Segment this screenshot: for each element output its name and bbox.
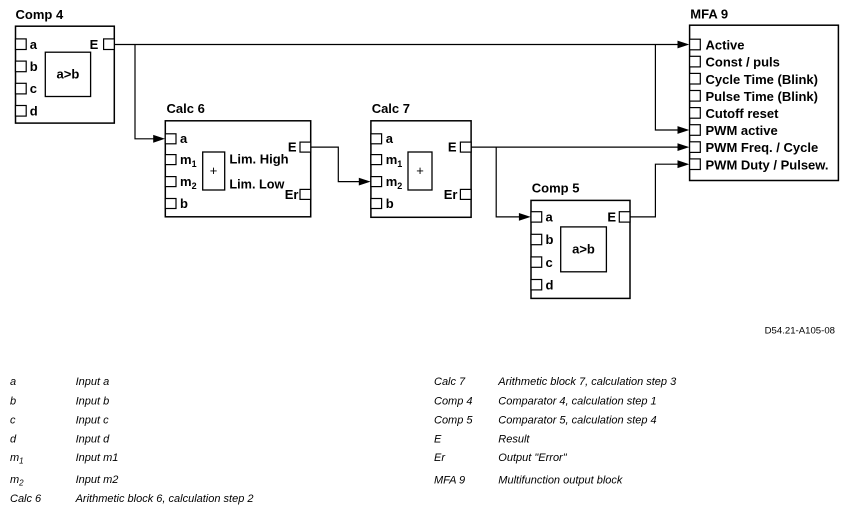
svg-text:a>b: a>b — [57, 66, 80, 81]
pin a (Comp 5) — [531, 210, 554, 225]
svg-text:Lim. Low: Lim. Low — [229, 176, 285, 191]
pin a (Calc 6) — [165, 131, 188, 146]
svg-text:a: a — [30, 37, 38, 52]
svg-text:E: E — [288, 139, 297, 154]
svg-text:Arithmetic block 7, calculatio: Arithmetic block 7, calculation step 3 — [497, 376, 677, 388]
pin Er (Calc 7) — [444, 187, 471, 202]
svg-text:MFA 9: MFA 9 — [690, 7, 728, 22]
block Calc 7 outline — [371, 121, 471, 218]
pin Cycle Time (Blink) (MFA 9) — [690, 72, 818, 87]
drawing number D54.21-A105-08 — [765, 326, 835, 337]
svg-text:Er: Er — [285, 187, 299, 202]
svg-text:d: d — [30, 103, 38, 118]
svg-text:b: b — [30, 59, 38, 74]
svg-text:Const / puls: Const / puls — [706, 55, 780, 70]
pin b (Comp 5) — [531, 232, 554, 247]
pin m2 (Calc 7) — [371, 174, 402, 191]
svg-text:Cycle Time (Blink): Cycle Time (Blink) — [706, 72, 818, 87]
svg-text:a: a — [10, 376, 16, 388]
svg-text:a: a — [546, 210, 554, 225]
svg-text:Calc 6: Calc 6 — [10, 493, 42, 505]
block MFA 9 outline — [690, 25, 839, 180]
arrowhead into MFA 9 PWM Duty / Pulsew. — [678, 160, 690, 168]
svg-text:d: d — [546, 277, 554, 292]
pin c (Comp 4) — [16, 81, 38, 96]
legend row c — [10, 414, 109, 426]
svg-text:a: a — [180, 131, 188, 146]
legend row b — [10, 396, 109, 408]
pin PWM Freq. / Cycle (MFA 9) — [690, 140, 819, 155]
legend row m2 — [10, 474, 118, 488]
svg-text:Input a: Input a — [76, 376, 110, 388]
svg-text:Input b: Input b — [76, 396, 110, 408]
svg-text:c: c — [30, 81, 37, 96]
pin E (Calc 6) — [288, 139, 311, 154]
svg-text:Er: Er — [444, 187, 458, 202]
svg-text:Comp 5: Comp 5 — [434, 414, 473, 426]
pin E (Comp 4) — [90, 37, 115, 52]
svg-text:Arithmetic block 6, calculatio: Arithmetic block 6, calculation step 2 — [75, 493, 254, 505]
svg-text:Result: Result — [498, 434, 530, 446]
svg-text:Comp 4: Comp 4 — [434, 396, 473, 408]
pin PWM active (MFA 9) — [690, 123, 778, 138]
legend row Calc 6 — [10, 493, 254, 505]
legend row E — [434, 434, 530, 446]
function box a>b (Comp 5) — [561, 227, 607, 272]
pin m1 (Calc 7) — [371, 152, 402, 169]
svg-text:b: b — [546, 232, 554, 247]
legend row m1 — [10, 452, 118, 466]
pin b (Comp 4) — [16, 59, 38, 74]
arrowhead into MFA 9 PWM active — [678, 126, 690, 134]
function box + (Calc 7) — [408, 152, 432, 190]
arrowhead into Calc 6 a — [153, 135, 165, 143]
label Comp 4 — [16, 7, 64, 22]
svg-text:Comparator 5, calculation step: Comparator 5, calculation step 4 — [498, 414, 656, 426]
pin b (Calc 7) — [371, 196, 394, 211]
svg-text:E: E — [90, 37, 99, 52]
block Calc 6 outline — [165, 121, 310, 217]
svg-text:a>b: a>b — [572, 242, 595, 257]
block Comp 5 outline — [531, 200, 630, 298]
arrowhead into MFA 9 Active — [678, 41, 690, 49]
svg-text:b: b — [180, 196, 188, 211]
arrowhead into Comp 5 a — [519, 213, 531, 221]
svg-text:D54.21-A105-08: D54.21-A105-08 — [765, 326, 835, 337]
pin a (Comp 4) — [16, 37, 38, 52]
pin Cutoff reset (MFA 9) — [690, 106, 780, 121]
svg-text:E: E — [607, 210, 616, 225]
svg-text:d: d — [10, 434, 17, 446]
value label Lim. High (Calc 6) — [229, 152, 288, 167]
legend row a — [10, 376, 109, 388]
legend row Comp 5 — [434, 414, 657, 426]
wire branch to Calc 6 a — [135, 45, 155, 139]
svg-text:Calc 7: Calc 7 — [372, 101, 410, 116]
legend row Comp 4 — [434, 396, 657, 408]
wire Comp 4 E to MFA 9 Active — [114, 44, 678, 46]
svg-text:b: b — [10, 396, 16, 408]
pin c (Comp 5) — [531, 255, 553, 270]
svg-text:Er: Er — [434, 452, 446, 464]
svg-text:Comp 4: Comp 4 — [16, 7, 64, 22]
pin d (Comp 5) — [531, 277, 554, 292]
label Calc 7 — [372, 101, 410, 116]
label Comp 5 — [532, 180, 580, 195]
svg-text:c: c — [546, 255, 553, 270]
label Calc 6 — [167, 101, 205, 116]
svg-text:Input c: Input c — [76, 414, 110, 426]
block Comp 4 outline — [16, 26, 115, 123]
pin E (Comp 5) — [607, 210, 630, 225]
svg-text:a: a — [386, 131, 394, 146]
pin Pulse Time (Blink) (MFA 9) — [690, 89, 818, 104]
svg-text:Multifunction output block: Multifunction output block — [498, 475, 623, 487]
pin b (Calc 6) — [165, 196, 188, 211]
pin Er (Calc 6) — [285, 187, 311, 202]
svg-text:+: + — [210, 163, 218, 178]
legend row Er — [434, 452, 568, 464]
svg-text:c: c — [10, 414, 16, 426]
wire Comp 5 E to MFA 9 PWM Duty / Pulsew. — [630, 164, 679, 217]
svg-text:Active: Active — [706, 38, 745, 53]
svg-text:Pulse Time (Blink): Pulse Time (Blink) — [706, 89, 818, 104]
pin m1 (Calc 6) — [165, 152, 196, 169]
svg-text:Comparator 4, calculation step: Comparator 4, calculation step 1 — [498, 396, 656, 408]
arrowhead into Calc 7 m2 — [359, 178, 371, 186]
legend row Calc 7 — [434, 376, 677, 388]
pin PWM Duty / Pulsew. (MFA 9) — [690, 157, 829, 172]
pin Const / puls (MFA 9) — [690, 55, 780, 70]
svg-text:Input d: Input d — [76, 434, 111, 446]
wire branch to Comp 5 a — [496, 147, 520, 217]
pin m2 (Calc 6) — [165, 174, 196, 191]
svg-text:PWM Freq. / Cycle: PWM Freq. / Cycle — [706, 140, 819, 155]
svg-text:Comp 5: Comp 5 — [532, 180, 580, 195]
svg-text:Lim. High: Lim. High — [229, 152, 288, 167]
arrowhead into MFA 9 PWM Freq. / Cycle — [678, 143, 690, 151]
legend row MFA 9 — [434, 475, 623, 487]
wire Calc 7 E to MFA 9 PWM Freq. / Cycle — [471, 146, 678, 148]
svg-text:E: E — [434, 434, 442, 446]
label MFA 9 — [690, 7, 728, 22]
pin a (Calc 7) — [371, 131, 394, 146]
svg-text:Input m1: Input m1 — [76, 452, 119, 464]
svg-text:MFA 9: MFA 9 — [434, 475, 465, 487]
svg-text:Calc 6: Calc 6 — [167, 101, 205, 116]
wire branch to MFA 9 PWM active — [655, 45, 678, 131]
function box + (Calc 6) — [203, 152, 225, 190]
svg-text:+: + — [416, 163, 424, 178]
svg-text:Cutoff reset: Cutoff reset — [706, 106, 780, 121]
svg-text:E: E — [448, 139, 457, 154]
legend row d — [10, 434, 110, 446]
svg-text:Calc 7: Calc 7 — [434, 376, 466, 388]
pin Active (MFA 9) — [690, 38, 745, 53]
function box a>b (Comp 4) — [45, 52, 90, 96]
svg-text:PWM active: PWM active — [706, 123, 778, 138]
value label Lim. Low (Calc 6) — [229, 176, 285, 191]
svg-text:b: b — [386, 196, 394, 211]
svg-text:Input m2: Input m2 — [76, 474, 119, 486]
pin E (Calc 7) — [448, 139, 471, 154]
svg-text:PWM Duty / Pulsew.: PWM Duty / Pulsew. — [706, 157, 829, 172]
svg-text:Output "Error": Output "Error" — [498, 452, 567, 464]
pin d (Comp 4) — [16, 103, 38, 118]
wire Calc 6 E to Calc 7 m2 — [311, 147, 360, 182]
